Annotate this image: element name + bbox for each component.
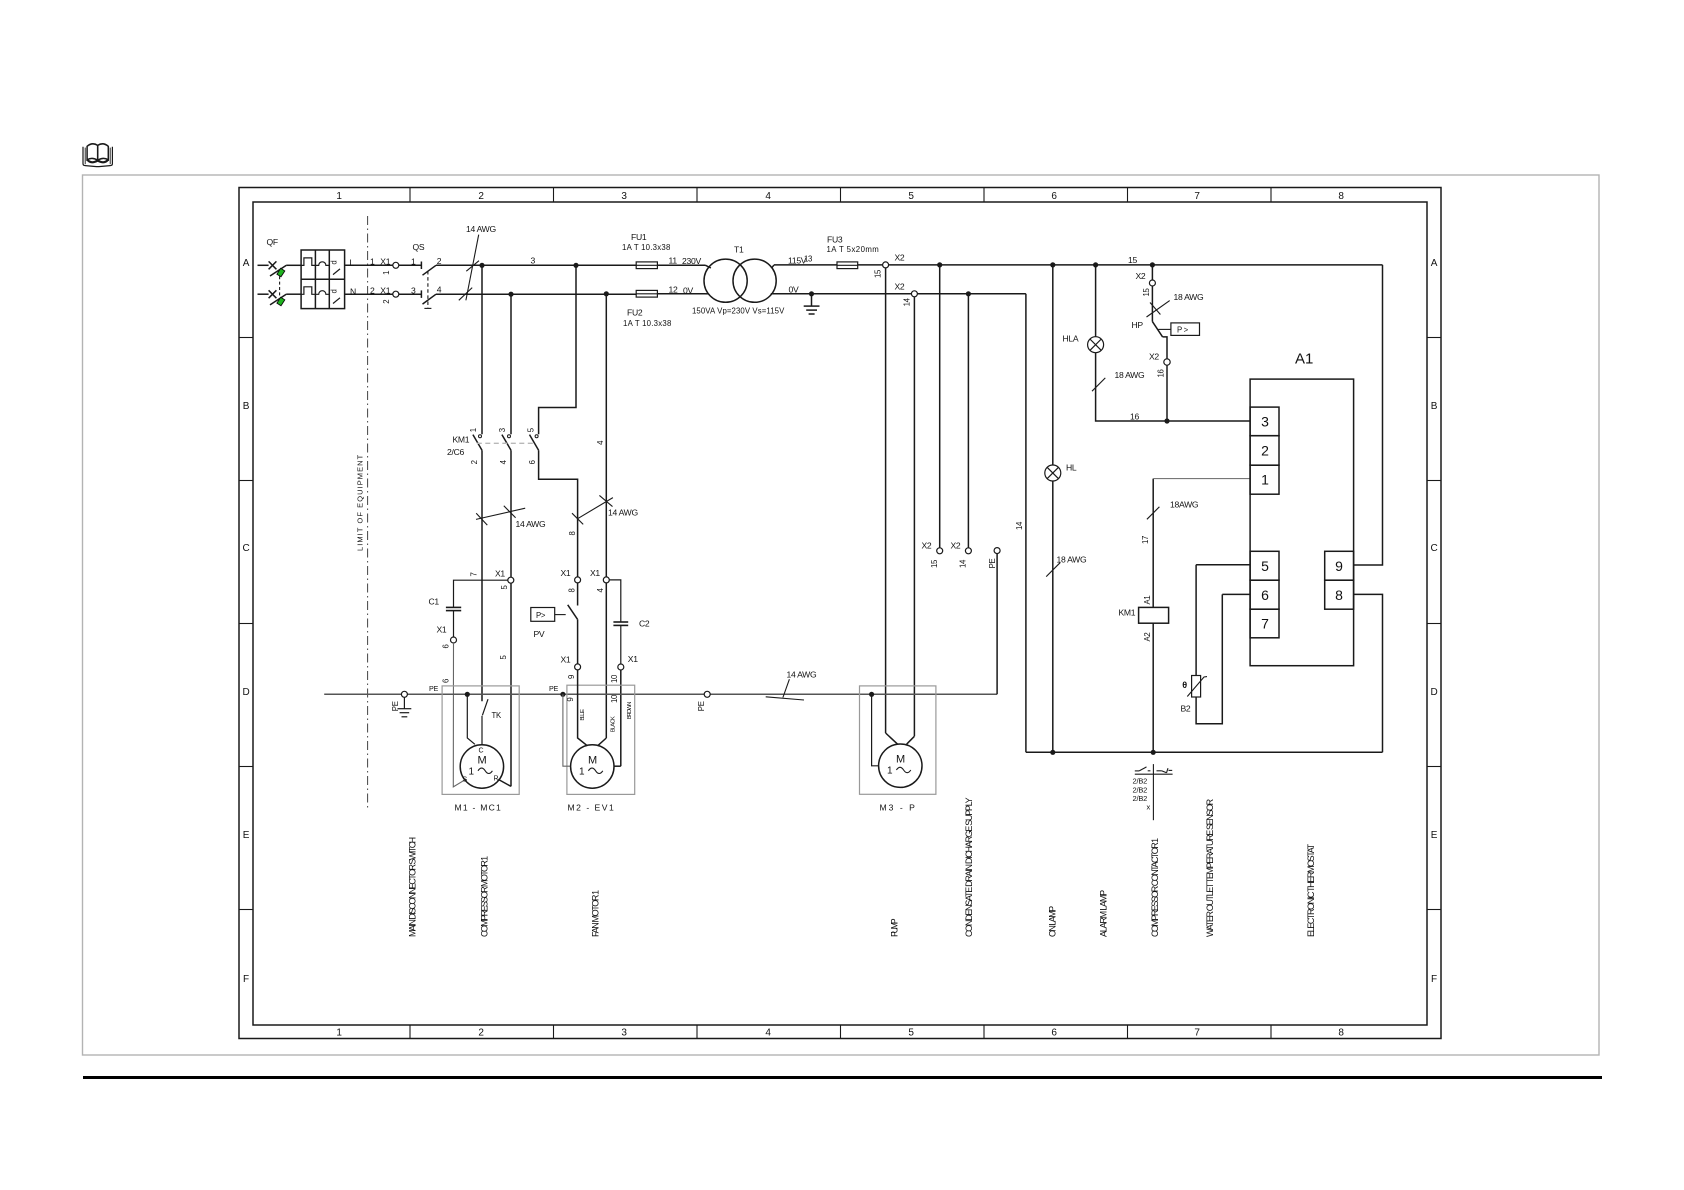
svg-text:C2: C2 [639, 619, 650, 629]
svg-text:2/B2: 2/B2 [1133, 794, 1148, 803]
wire B2 sensor to pin 6 [1196, 594, 1250, 723]
svg-text:F: F [1431, 974, 1437, 985]
wire gauge mark 14 AWG on PE rail [766, 670, 817, 701]
wire 2 KM1 pole 2 feed [510, 294, 512, 786]
svg-text:PE: PE [429, 684, 438, 693]
svg-text:18 AWG: 18 AWG [1057, 555, 1087, 565]
svg-text:C1: C1 [429, 597, 440, 607]
junction PE to M2 [560, 692, 565, 697]
svg-text:5: 5 [908, 191, 914, 202]
svg-text:1: 1 [336, 191, 342, 202]
svg-text:WATER OUTLET TEMPERATURE SENSO: WATER OUTLET TEMPERATURE SENSOR [1205, 798, 1215, 937]
thermistor B2 [1181, 676, 1208, 714]
svg-text:2: 2 [1261, 443, 1269, 459]
wire number 12 and 0V [669, 284, 694, 295]
svg-text:18 AWG: 18 AWG [1174, 292, 1204, 302]
junction on L at KM1 branch [479, 263, 484, 268]
terminal X2:14 lower [951, 541, 972, 569]
svg-text:HLA: HLA [1063, 334, 1079, 344]
svg-text:2: 2 [478, 1028, 484, 1039]
svg-text:P >: P > [1177, 325, 1189, 334]
wire pin8 to return rail [1354, 594, 1383, 752]
disconnector switch QS [421, 262, 436, 309]
capacitor C1 [429, 580, 508, 637]
svg-text:2/B2: 2/B2 [1133, 785, 1148, 794]
motor M2 fan [571, 745, 614, 788]
junction 115V rail at HL [1050, 262, 1055, 267]
svg-text:R: R [494, 776, 499, 783]
junction return rail at coil A2 [1151, 750, 1156, 755]
svg-text:1: 1 [336, 1028, 342, 1039]
wire number 11 and 230V [669, 256, 702, 266]
svg-text:C: C [1430, 543, 1437, 554]
svg-text:14: 14 [903, 297, 912, 306]
wire BROWN into M2 [614, 765, 621, 767]
svg-text:15: 15 [1142, 288, 1151, 297]
svg-text:5: 5 [908, 1028, 914, 1039]
junction return rail at HL [1050, 750, 1055, 755]
svg-text:E: E [243, 830, 250, 841]
capacitor C2 [609, 580, 650, 664]
pressure switch HP [1132, 320, 1200, 359]
label QS and pins 1 2 3 4 [411, 242, 442, 295]
wire gauge mark 18 AWG on HL branch [1046, 555, 1087, 577]
svg-text:14: 14 [1015, 521, 1024, 530]
svg-text:15: 15 [874, 269, 883, 278]
terminal X1:6 [437, 625, 457, 649]
terminal X1:8 [561, 568, 581, 593]
contactor coil KM1 [1119, 596, 1169, 642]
svg-text:FU2: FU2 [627, 308, 643, 318]
wire gauge mark 18 AWG on HP branch [1147, 292, 1204, 317]
svg-text:N: N [350, 286, 356, 296]
wire 14 secondary 0V rail [657, 293, 1026, 295]
svg-text:1: 1 [469, 428, 478, 432]
junction PE to M1 [465, 692, 470, 697]
svg-text:TK: TK [492, 711, 502, 720]
svg-text:X1: X1 [628, 654, 638, 664]
svg-text:16: 16 [1130, 411, 1139, 421]
junction 115V rail at HP [1150, 262, 1155, 267]
svg-text:4: 4 [437, 285, 442, 295]
cross reference contact 2/B2 [1133, 764, 1173, 820]
wire PE into M3 [872, 694, 879, 766]
wire 1 KM1 pole 1 feed [481, 265, 483, 701]
svg-text:PE: PE [549, 684, 558, 693]
svg-text:B2: B2 [1181, 704, 1191, 714]
junction on N at wire 4 branch [604, 291, 609, 296]
svg-text:x: x [1147, 803, 1151, 812]
svg-text:P>: P> [536, 611, 546, 620]
svg-text:1: 1 [411, 257, 416, 267]
terminal X1:2 [370, 286, 399, 304]
svg-text:1A T 5x20mm: 1A T 5x20mm [827, 245, 879, 254]
svg-text:3: 3 [621, 1028, 627, 1039]
svg-text:B: B [1431, 401, 1438, 412]
svg-text:d: d [330, 289, 339, 293]
svg-text:8: 8 [568, 531, 577, 535]
limit of equipment boundary line [356, 216, 368, 810]
wire feeds into M3 [886, 733, 915, 744]
svg-text:PE: PE [391, 701, 400, 711]
svg-text:2: 2 [470, 460, 479, 464]
labels 115V 13 0V [788, 255, 812, 295]
svg-text:3: 3 [411, 285, 416, 295]
svg-text:1: 1 [382, 271, 391, 275]
svg-text:9: 9 [566, 698, 575, 702]
svg-text:ALARM LAMP: ALARM LAMP [1099, 890, 1109, 937]
wire 14 bottom return rail [1026, 751, 1383, 753]
svg-text:2: 2 [437, 256, 442, 266]
svg-text:1A T 10.3x38: 1A T 10.3x38 [622, 243, 670, 252]
svg-text:3: 3 [531, 256, 536, 266]
svg-text:7: 7 [469, 572, 478, 576]
junction on 115V rail at X2 stub [937, 262, 942, 267]
thermostat module A1 [1250, 351, 1354, 666]
junction wire 16 [1164, 418, 1169, 423]
wire PE into M2 [563, 694, 571, 766]
svg-text:2: 2 [478, 191, 484, 202]
circuit breaker QF [269, 250, 345, 309]
svg-text:M3 - P: M3 - P [880, 803, 916, 813]
svg-text:MAIN DISCONNECTOR SWITCH: MAIN DISCONNECTOR SWITCH [408, 837, 418, 937]
svg-text:0V: 0V [683, 285, 693, 295]
svg-text:A: A [1431, 258, 1438, 269]
wire branch to KM1 pole 3 [539, 265, 576, 434]
svg-text:X1: X1 [380, 257, 390, 267]
wire 4 into M2 [605, 583, 607, 738]
svg-text:QS: QS [413, 242, 425, 252]
terminal X1:10 [610, 654, 638, 683]
KM1 pin numbers 1-6 [469, 427, 537, 464]
wire stub to terminal X2:14 lower [967, 294, 969, 548]
svg-text:1A T 10.3x38: 1A T 10.3x38 [623, 319, 671, 328]
junction on 0V rail at X2 stub [966, 291, 971, 296]
wire gauge mark 14 AWG on L and N [459, 224, 497, 300]
svg-text:PUMP: PUMP [890, 918, 900, 937]
wire run winding R into M1 [498, 779, 511, 786]
svg-text:10: 10 [610, 694, 619, 703]
svg-text:6: 6 [1051, 191, 1057, 202]
fuse FU1 [622, 232, 670, 269]
svg-text:M: M [588, 755, 597, 767]
svg-text:A: A [243, 258, 250, 269]
pressure switch PV [531, 583, 578, 664]
wire HLA lamp branch [1096, 265, 1251, 421]
svg-text:18 AWG: 18 AWG [1115, 370, 1145, 380]
svg-text:ON LAMP: ON LAMP [1048, 906, 1058, 937]
svg-text:2/C6: 2/C6 [447, 447, 464, 457]
svg-text:4: 4 [765, 1028, 771, 1039]
svg-text:1: 1 [469, 767, 475, 778]
svg-text:E: E [1431, 830, 1438, 841]
svg-text:6: 6 [441, 679, 450, 683]
svg-text:A1: A1 [1143, 596, 1152, 605]
wire 8 from KM1 pole 3 [539, 450, 578, 577]
svg-text:M: M [478, 755, 487, 767]
thermal protector TK [482, 699, 502, 745]
svg-text:BLACK: BLACK [611, 716, 617, 732]
wire M3 pump feed from X2:15 [885, 268, 887, 733]
svg-text:KM1: KM1 [1119, 608, 1136, 618]
contactor KM1 main contacts [473, 435, 539, 451]
wire BLACK into M2 [598, 738, 607, 746]
label KM1 2/C6 [447, 435, 470, 458]
terminal X2:14 on 0V rail [895, 282, 918, 307]
svg-text:14: 14 [959, 559, 968, 568]
svg-text:11: 11 [669, 256, 678, 266]
lamp HLA [1063, 334, 1104, 353]
svg-text:230V: 230V [682, 256, 701, 266]
svg-text:3: 3 [1261, 414, 1269, 430]
svg-text:C: C [242, 543, 249, 554]
terminal X1:9 [561, 655, 581, 680]
svg-text:BROWN: BROWN [627, 702, 633, 720]
svg-text:13: 13 [804, 255, 812, 264]
svg-text:D: D [242, 687, 249, 698]
svg-text:ELECTRONIC THERMOSTAT: ELECTRONIC THERMOSTAT [1306, 843, 1316, 937]
svg-text:4: 4 [765, 191, 771, 202]
svg-text:8: 8 [1338, 1028, 1344, 1039]
svg-text:L: L [350, 258, 355, 268]
wire coil A2 return [1152, 623, 1154, 752]
QF curve marks d [330, 261, 339, 294]
M2 fan enclosure box [549, 684, 635, 794]
svg-text:CONDENSATE DRAIN DICHARGE SUPP: CONDENSATE DRAIN DICHARGE SUPPLY [964, 797, 974, 937]
svg-text:X1: X1 [495, 569, 505, 579]
svg-text:COMPRESSOR CONTACTOR 1: COMPRESSOR CONTACTOR 1 [1150, 838, 1160, 937]
svg-text:D: D [1430, 687, 1437, 698]
svg-text:COMPRESSOR MOTOR 1: COMPRESSOR MOTOR 1 [480, 856, 490, 937]
wire gauge mark 14 AWG on wires 8 and 4 [572, 495, 638, 524]
svg-text:6: 6 [1051, 1028, 1057, 1039]
svg-text:1: 1 [887, 766, 893, 777]
wire pin 1 to coil node [1153, 478, 1250, 480]
wire 6 to M1 start winding [453, 643, 466, 787]
wire B2 sensor to pin 5 [1196, 565, 1250, 676]
svg-text:X2: X2 [895, 282, 905, 292]
PE stub terminal right [988, 548, 1000, 695]
ground symbol on 0V [804, 291, 820, 314]
wire L phase rail [258, 264, 706, 266]
wire 14 neutral return drop [1025, 294, 1027, 753]
terminal X2:15 on 115V rail [883, 253, 905, 268]
svg-text:KM1: KM1 [453, 435, 470, 445]
svg-text:M: M [896, 754, 905, 766]
wire N neutral rail [258, 293, 637, 295]
svg-text:A2: A2 [1143, 633, 1152, 642]
PE terminal mid rail [697, 691, 710, 711]
svg-text:7: 7 [1261, 616, 1269, 632]
lamp HL [1045, 463, 1077, 482]
svg-text:d: d [330, 261, 339, 265]
svg-text:S: S [463, 777, 468, 784]
wire 17 coil feed [1152, 479, 1154, 608]
svg-text:17: 17 [1141, 536, 1150, 544]
svg-text:16: 16 [1156, 369, 1165, 377]
svg-text:X1: X1 [380, 286, 390, 296]
fuse FU2 [623, 290, 671, 327]
svg-text:18AWG: 18AWG [1170, 500, 1199, 510]
svg-text:1: 1 [579, 767, 585, 778]
svg-text:QF: QF [267, 237, 278, 247]
svg-text:3: 3 [621, 191, 627, 202]
svg-text:X2: X2 [1136, 271, 1146, 281]
svg-text:8: 8 [1335, 587, 1343, 603]
svg-text:θ: θ [1182, 680, 1187, 690]
terminal X1:5 [495, 569, 514, 590]
svg-text:HP: HP [1132, 320, 1144, 330]
wire PE into M1 [467, 694, 475, 744]
svg-text:B: B [243, 401, 250, 412]
PE protective earth rail [324, 693, 997, 695]
svg-text:X1: X1 [561, 568, 571, 578]
svg-text:X2: X2 [951, 541, 961, 551]
svg-text:14 AWG: 14 AWG [466, 224, 496, 234]
wire 16 to junction [1166, 365, 1168, 421]
PE terminal with ground symbol [391, 691, 411, 717]
svg-text:2: 2 [370, 286, 375, 296]
svg-text:150VA Vp=230V Vs=115V: 150VA Vp=230V Vs=115V [692, 307, 785, 316]
motor M3 pump [879, 744, 922, 787]
svg-text:7: 7 [1194, 1028, 1200, 1039]
svg-text:3: 3 [498, 428, 507, 432]
junction on L at pole 5 branch [573, 263, 578, 268]
wire gauge mark 18AWG on coil feed [1147, 500, 1199, 520]
svg-text:X1: X1 [561, 655, 571, 665]
svg-text:8: 8 [1338, 191, 1344, 202]
svg-text:HL: HL [1066, 463, 1077, 473]
terminal X2:16 [1149, 351, 1170, 377]
transformer T1 [692, 245, 785, 316]
svg-text:8: 8 [567, 588, 576, 592]
svg-text:PE: PE [988, 559, 997, 569]
svg-text:X1: X1 [437, 625, 447, 635]
svg-text:A1: A1 [1295, 351, 1313, 368]
terminal X2:15 HP side [1136, 271, 1156, 296]
wire HP branch [1151, 265, 1153, 322]
wire stub to terminal X2:15 lower [939, 265, 941, 548]
svg-text:15: 15 [930, 559, 939, 568]
svg-text:FU3: FU3 [827, 235, 843, 245]
svg-text:14 AWG: 14 AWG [516, 519, 546, 529]
wire pin9 to 115V rail [1354, 265, 1383, 565]
svg-text:1: 1 [1261, 472, 1269, 488]
svg-text:15: 15 [1128, 255, 1137, 265]
svg-text:6: 6 [441, 644, 450, 648]
junction PE to M3 [869, 692, 874, 697]
motor M1 compressor [460, 745, 503, 788]
terminal X1:1 [370, 257, 399, 275]
fuse FU3 [827, 235, 879, 269]
junction on N at KM1 branch [508, 292, 513, 297]
svg-text:X2: X2 [895, 253, 905, 263]
svg-text:9: 9 [1335, 558, 1343, 574]
wire 4 neutral branch [605, 294, 607, 577]
wire M3 pump return to X2:14 [913, 297, 915, 736]
svg-text:6: 6 [528, 460, 537, 464]
wire 15 secondary 115V rail [774, 264, 1383, 266]
terminal X1:4 [590, 568, 609, 593]
svg-text:C: C [479, 748, 484, 755]
svg-text:PE: PE [697, 701, 706, 711]
terminal X2:15 lower [922, 541, 943, 569]
svg-text:FAN MOTOR 1: FAN MOTOR 1 [591, 890, 601, 937]
wire gauge mark 14 AWG on wires 1 and 2 [476, 506, 546, 529]
svg-text:X2: X2 [922, 541, 932, 551]
wire HL lamp branch [1052, 265, 1054, 752]
wire BLUE into M2 [578, 670, 588, 746]
svg-text:6: 6 [1261, 587, 1269, 603]
wire gauge mark 18 AWG on HLA branch [1092, 370, 1145, 391]
M3 pump enclosure box [860, 686, 936, 794]
svg-text:5: 5 [1261, 558, 1269, 574]
junction 115V rail at HLA [1093, 262, 1098, 267]
svg-text:F: F [243, 974, 249, 985]
svg-text:1: 1 [370, 257, 375, 267]
svg-text:7: 7 [1194, 191, 1200, 202]
manual book icon [83, 144, 112, 167]
wire 10 into M2 [620, 670, 622, 766]
svg-text:2: 2 [382, 300, 391, 304]
svg-text:0V: 0V [789, 285, 799, 295]
M1 compressor enclosure box [429, 684, 519, 794]
svg-text:X2: X2 [1149, 351, 1159, 361]
svg-text:BLUE: BLUE [580, 709, 586, 721]
svg-text:10: 10 [610, 674, 619, 683]
svg-text:2/B2: 2/B2 [1133, 777, 1148, 786]
svg-text:PV: PV [534, 629, 545, 639]
svg-text:T1: T1 [734, 245, 744, 255]
svg-text:FU1: FU1 [631, 232, 647, 242]
svg-text:9: 9 [567, 675, 576, 679]
svg-text:14 AWG: 14 AWG [608, 508, 638, 518]
svg-text:14 AWG: 14 AWG [787, 670, 817, 680]
svg-text:X1: X1 [590, 568, 600, 578]
svg-text:12: 12 [669, 284, 678, 294]
